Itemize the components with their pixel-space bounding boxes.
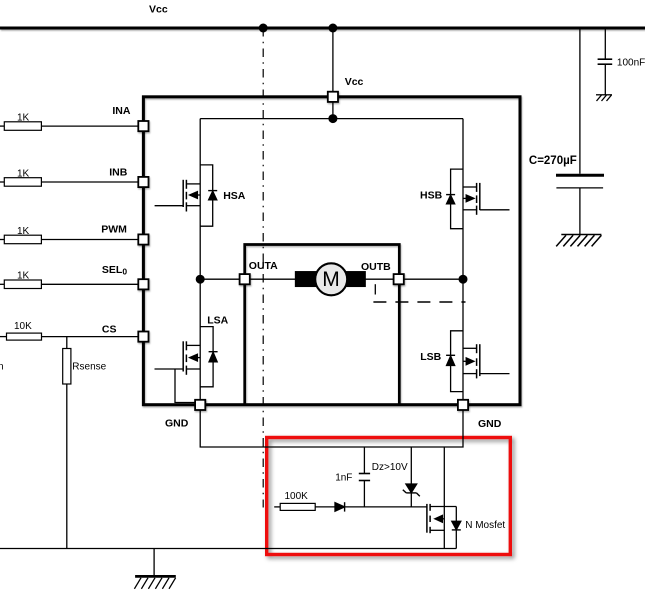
svg-text:CS: CS [102, 323, 117, 335]
svg-text:INB: INB [109, 167, 128, 179]
wire PWM input [0, 239, 4, 241]
resistor 10K (CS) [7, 333, 42, 340]
junction OUTA node [196, 275, 205, 284]
svg-text:M: M [322, 268, 340, 291]
ground stub wire [153, 549, 155, 577]
svg-text:100nF: 100nF [617, 57, 645, 68]
wire 100K input stub [274, 506, 280, 508]
zener diode Dz [403, 447, 420, 507]
bottom rail wire [0, 548, 456, 550]
svg-text:GND: GND [478, 418, 502, 430]
transistor HSB [446, 119, 509, 280]
wire gate net [345, 506, 427, 508]
wire LSA gate to GND pin [175, 369, 196, 403]
svg-text:GND: GND [165, 417, 189, 429]
wire INA input [0, 125, 4, 127]
wire CS to Rsense [66, 337, 68, 349]
capacitor C=270uF [556, 174, 604, 177]
wire Vcc rail to Vcc pin [332, 28, 334, 92]
wire INB input [0, 181, 4, 183]
svg-text:N Mosfet: N Mosfet [465, 520, 505, 531]
junction dots [196, 24, 468, 284]
ground (bottom) [134, 576, 175, 588]
svg-text:1K: 1K [17, 271, 30, 282]
wire SEL0 input [0, 283, 4, 285]
svg-text:C=270µF: C=270µF [529, 155, 577, 167]
svg-text:Vcc: Vcc [345, 76, 364, 88]
resistor 1K (PWM) [4, 235, 41, 244]
junction on Vcc rail (Vcc pin) [328, 24, 337, 33]
red highlight box [267, 438, 511, 555]
transistor HSA [155, 119, 218, 280]
pin OUTA [240, 274, 250, 284]
svg-text:INA: INA [112, 105, 130, 117]
diode D1 (series) [335, 503, 345, 512]
wire GND-A down and across to GND-B [200, 410, 463, 447]
internal gate rail wire [200, 118, 463, 120]
svg-text:PWM: PWM [101, 224, 127, 236]
capacitor 1nF [359, 447, 370, 507]
pin OUTB [394, 274, 404, 284]
svg-text:10K: 10K [14, 321, 32, 332]
junction internal rail [328, 114, 337, 123]
wire Rsense to bottom rail [66, 384, 68, 549]
svg-text:HSA: HSA [223, 190, 246, 202]
wire OUTA node [200, 278, 239, 280]
ground (100nF) [596, 95, 612, 101]
svg-text:OUTA: OUTA [249, 260, 278, 272]
capacitor 100nF [598, 59, 613, 64]
svg-text:1K: 1K [17, 168, 30, 179]
pin INB [138, 177, 148, 187]
junction on Vcc rail (dash-dot) [259, 24, 268, 33]
center dash-dot line [262, 28, 264, 508]
dashed wire to LSB [373, 301, 465, 303]
svg-text:100K: 100K [285, 491, 309, 502]
svg-text:n: n [0, 361, 4, 372]
pin CS [138, 332, 148, 342]
junction OUTB / LSB drain [459, 275, 468, 284]
transistor LSB [446, 279, 509, 400]
wire CS input [0, 336, 7, 338]
motor bridge inner box [245, 245, 400, 405]
transistor N Mosfet [427, 447, 461, 549]
motor M black terminals [296, 272, 318, 287]
svg-text:Dz>10V: Dz>10V [372, 462, 408, 473]
wire motor to OUTB [365, 278, 394, 280]
svg-text:HSB: HSB [420, 190, 443, 202]
resistor Rsense [63, 349, 71, 385]
transistor LSA [155, 279, 218, 402]
pin PWM [138, 234, 148, 244]
wire Vcc pin to internal rail [332, 101, 334, 119]
pin GND A [195, 400, 205, 410]
svg-text:LSA: LSA [207, 315, 228, 327]
resistor 1K (INB) [4, 178, 41, 187]
terminal squares [138, 92, 468, 410]
resistor 1K (SEL0) [4, 280, 41, 289]
svg-text:SEL0: SEL0 [102, 264, 127, 277]
dashed stub below OUTB [374, 284, 376, 294]
svg-text:1nF: 1nF [335, 472, 352, 483]
pin SEL0 [138, 279, 148, 289]
driver IC outline box [143, 97, 520, 405]
svg-text:Vcc: Vcc [149, 4, 168, 16]
resistor 1K (INA) [4, 122, 41, 131]
resistor 100K [280, 503, 315, 510]
diode (drain-source) of N Mosfet [452, 521, 461, 529]
wire C270 branch [579, 28, 581, 174]
svg-text:OUTB: OUTB [361, 261, 391, 273]
svg-text:LSB: LSB [420, 351, 441, 363]
svg-text:Rsense: Rsense [72, 361, 106, 372]
wire 100nF branch [604, 28, 606, 59]
pin Vcc [328, 92, 338, 102]
motor M circle [315, 263, 347, 295]
wire OUTB to LSB drain [404, 278, 463, 280]
svg-text:1K: 1K [17, 112, 30, 123]
ground (C270) [556, 235, 601, 247]
wire 100K to diode [315, 506, 335, 508]
pin GND B [458, 400, 468, 410]
pin INA [138, 121, 148, 131]
wire OUTA to motor [250, 278, 296, 280]
Vcc rail [0, 27, 645, 30]
svg-text:1K: 1K [17, 226, 30, 237]
